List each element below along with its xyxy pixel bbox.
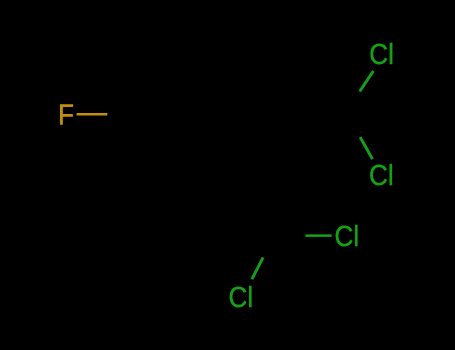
svg-text:Cl: Cl xyxy=(369,38,394,71)
svg-text:Cl: Cl xyxy=(229,281,254,314)
svg-text:Cl: Cl xyxy=(369,159,394,192)
svg-text:F: F xyxy=(58,98,74,131)
svg-text:Cl: Cl xyxy=(335,220,360,253)
